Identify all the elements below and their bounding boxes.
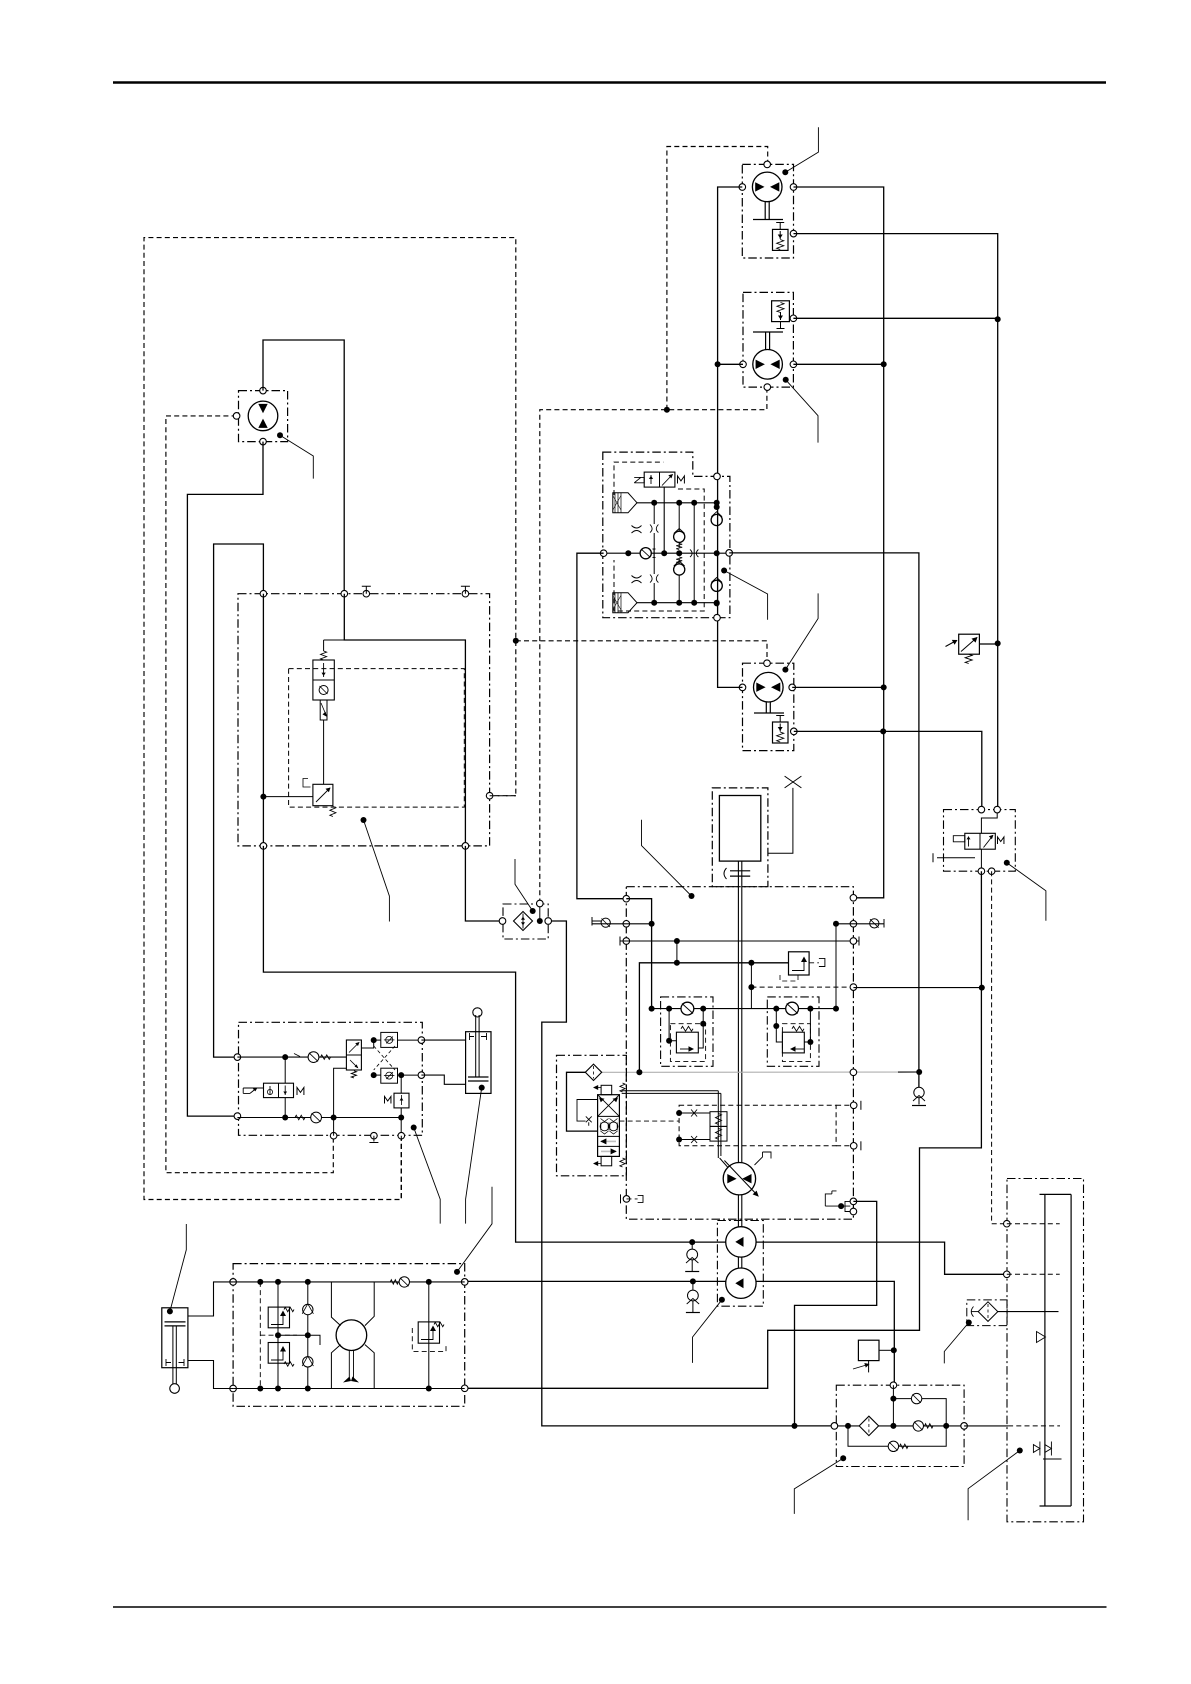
junction pb tie bbox=[275, 1332, 281, 1338]
junction pilot 2c bbox=[398, 1115, 404, 1121]
dashed filter into tank bbox=[1008, 1425, 1060, 1427]
engine body bbox=[719, 796, 760, 862]
dashed LS line bbox=[751, 986, 853, 988]
dashed enclosure box A bbox=[144, 238, 516, 1200]
port central D1 bbox=[850, 1102, 857, 1109]
prop valve sect lines bbox=[598, 1116, 620, 1146]
leader F1 bbox=[515, 859, 533, 911]
port filter left bbox=[831, 1423, 838, 1430]
gear pump P2 circle bbox=[726, 1227, 756, 1257]
wire filter main line bbox=[834, 1425, 964, 1427]
prop valve drain dashed bbox=[619, 1120, 679, 1122]
port M2 left bbox=[740, 361, 747, 368]
port pump box R2 bbox=[461, 1385, 468, 1392]
dashed enclosure box C bbox=[289, 669, 465, 808]
port middle bottom1 bbox=[260, 843, 267, 850]
junction central L1a bbox=[649, 921, 655, 927]
valve V6 spring bbox=[351, 1071, 356, 1078]
wire V4 top jog bbox=[981, 810, 997, 834]
port pilot B2 bbox=[371, 1132, 378, 1139]
filter F1 diamond bbox=[514, 912, 533, 931]
relief valve R8 arrow bbox=[271, 1312, 283, 1325]
port M1 right bbox=[790, 184, 797, 191]
wire pump return line bbox=[465, 1281, 895, 1385]
port M3 top bbox=[764, 660, 771, 667]
port F1 top bbox=[537, 900, 544, 907]
leader M4 bbox=[280, 435, 313, 478]
junction M2 relief bbox=[995, 316, 1001, 322]
junction dashed pilot bbox=[664, 407, 670, 413]
wire filter top drop bbox=[892, 1385, 894, 1426]
check valve FB1 bbox=[911, 1393, 921, 1403]
port middle top3 bbox=[363, 590, 370, 597]
tbar P1 bbox=[620, 1194, 622, 1203]
leader return filter bbox=[944, 1323, 969, 1364]
prop valve X mark bbox=[586, 1116, 592, 1125]
relief valve R5 body bbox=[959, 634, 980, 654]
port pilot R1 bbox=[418, 1037, 425, 1044]
filter F1 enclosure bbox=[503, 904, 548, 939]
check valve S1 bbox=[691, 1242, 693, 1249]
wire V1 left to center block bbox=[577, 553, 626, 899]
top rule bbox=[113, 81, 1106, 83]
motor M3 arrow left bbox=[756, 683, 765, 692]
port M1 left bbox=[739, 184, 746, 191]
relief valve R10 arrow bbox=[421, 1327, 433, 1340]
return filter F4 box bbox=[967, 1300, 1007, 1326]
valve V6 body bbox=[346, 1040, 361, 1070]
solenoid valve V2 check bbox=[319, 686, 328, 695]
relief valve R8 spring bbox=[284, 1307, 294, 1311]
port V1 top bbox=[714, 473, 721, 480]
port M3 relief bbox=[791, 728, 798, 735]
tank T pilot bbox=[369, 1136, 378, 1143]
leader dot 3 bbox=[454, 1269, 460, 1275]
port filter right bbox=[961, 1423, 968, 1430]
wire M1 left return bbox=[718, 187, 743, 687]
prop valve body bbox=[598, 1095, 620, 1157]
port V1 right bbox=[726, 550, 733, 557]
pump P4 diagonals bbox=[331, 1282, 374, 1389]
prop valve checks bbox=[600, 1122, 609, 1131]
tbar middle top4 bbox=[461, 586, 470, 594]
wire pilot line2 bbox=[237, 1117, 401, 1119]
check valve V1 center bbox=[640, 548, 651, 559]
sub-box right inner dashed bbox=[782, 1024, 810, 1062]
leader M1 bbox=[785, 127, 818, 172]
orifice V1 x654 bot bbox=[650, 575, 658, 583]
relief valve R1 body bbox=[676, 1032, 698, 1053]
wire M2 right bbox=[793, 363, 883, 365]
motor M2 relief valve bbox=[772, 301, 790, 322]
wire middle internal main bbox=[344, 594, 465, 846]
solenoid valve V5 lever bbox=[243, 1088, 263, 1093]
leader dot tank bbox=[1017, 1448, 1023, 1454]
wire pb tie bbox=[278, 1334, 308, 1336]
pilot box enclosure bbox=[239, 1022, 423, 1135]
port pilot L2 bbox=[234, 1113, 241, 1120]
check valve to tank bbox=[914, 1087, 924, 1097]
leader dot CYL2 bbox=[167, 1308, 173, 1314]
junction pb b1 bbox=[257, 1386, 263, 1392]
solenoid valve V2 spring bbox=[321, 651, 327, 660]
return filter F4 diamond bbox=[978, 1302, 998, 1322]
junction V1 center a bbox=[625, 550, 631, 556]
motor M1 arrow left bbox=[755, 182, 764, 191]
valve block V1 enclosure bbox=[603, 452, 730, 618]
junction M2 right bbox=[881, 361, 887, 367]
gear pump shaft mid bbox=[738, 1257, 741, 1268]
port central LS bbox=[850, 984, 857, 991]
port central D2 bbox=[850, 1143, 857, 1150]
port central grey bbox=[850, 1069, 857, 1076]
wire V1 right to drain column bbox=[729, 553, 919, 1087]
solenoid valve V1a diag bbox=[662, 475, 673, 486]
leader gear pumps bbox=[693, 1300, 722, 1363]
check pilot 1 bbox=[308, 1052, 319, 1063]
leader dot V4 bbox=[1004, 860, 1010, 866]
wire V2 top bbox=[323, 640, 325, 651]
junction central L1b bbox=[649, 1006, 655, 1012]
tank bottom bar bbox=[1040, 1505, 1072, 1507]
wire V4 Tport bbox=[937, 857, 975, 859]
wire R1 right bbox=[698, 1009, 703, 1048]
valve V4 body bbox=[965, 833, 996, 849]
shuttle spring V1 bbox=[676, 544, 682, 550]
solenoid valve V2 stem bbox=[320, 700, 327, 720]
pump P1 circle bbox=[723, 1163, 755, 1195]
relief valve R2 spring bbox=[792, 1026, 804, 1031]
port central L1 bbox=[623, 895, 630, 902]
dashed pilot from filter box up bbox=[540, 387, 767, 904]
motor M1 relief spring bbox=[777, 240, 784, 250]
prop valve bottom arrows bbox=[600, 1138, 606, 1144]
leader dot V1 bbox=[721, 568, 727, 574]
tank wall left bbox=[1044, 1194, 1046, 1506]
port pilot B3 bbox=[398, 1132, 405, 1139]
port V4 bot2 bbox=[988, 868, 995, 875]
wire pilotbox port A bbox=[214, 544, 264, 1057]
motor M4 circle bbox=[248, 401, 278, 431]
motor M1 relief arrow bbox=[779, 231, 781, 239]
heat exchanger body bbox=[858, 1340, 879, 1360]
junction R1 left bbox=[666, 1038, 672, 1044]
wire V1 center line bbox=[604, 552, 730, 554]
wire pb to pump bbox=[308, 1335, 320, 1345]
wire V3 out bbox=[263, 796, 313, 798]
wire V1 top gallery bbox=[637, 502, 718, 504]
port pump box R1 bbox=[461, 1279, 468, 1286]
leader dot M3 bbox=[782, 667, 788, 673]
junction C1 b bbox=[700, 1006, 706, 1012]
port central out1 bbox=[850, 1198, 857, 1205]
port central L2 bbox=[623, 921, 630, 928]
choke V1 left top bbox=[632, 526, 642, 529]
filter F2 diamond bbox=[585, 1064, 601, 1080]
port M3 left bbox=[739, 684, 746, 691]
label M V5 bbox=[297, 1088, 304, 1096]
leader engine bbox=[642, 820, 692, 896]
wire pilot filter line grey bbox=[602, 1071, 898, 1073]
wire M2 left bbox=[718, 363, 743, 365]
motor M1 arrow right bbox=[770, 182, 779, 191]
pump P1 arrow left bbox=[727, 1174, 736, 1183]
pump P4 drain bbox=[349, 1350, 353, 1379]
relief valve R9 body bbox=[268, 1343, 289, 1364]
leader dot filter box bbox=[840, 1455, 846, 1461]
port tank 2 bbox=[1004, 1271, 1011, 1278]
filter F1 arrows bbox=[522, 914, 524, 929]
dashed V4 return bbox=[992, 871, 1004, 1223]
motor M2 relief spring bbox=[777, 303, 784, 313]
port pump box L1 bbox=[230, 1279, 237, 1286]
engine vent flag bbox=[768, 788, 793, 853]
junction filter main a bbox=[845, 1423, 851, 1429]
port central out2 bbox=[850, 1208, 857, 1215]
wire pilot out1 bbox=[374, 1039, 381, 1041]
dashed middle right stub bbox=[490, 795, 516, 797]
wire filter bypass up bbox=[893, 1399, 946, 1426]
junction relief R5 bbox=[995, 640, 1001, 646]
wire M1 relief line bbox=[794, 234, 998, 810]
motor M1 relief valve bbox=[773, 229, 789, 250]
wire filter to tank port bbox=[964, 1425, 1008, 1427]
sub-box left inner dashed bbox=[670, 1024, 705, 1062]
wire central R2 stub bbox=[836, 923, 884, 925]
prop valve pilot loop bbox=[577, 1100, 598, 1122]
relief valve R7 body bbox=[394, 1093, 409, 1108]
valve block V1 inner dashed bbox=[614, 462, 704, 611]
label M V1a bbox=[678, 476, 685, 484]
junction V6 r1 bbox=[371, 1037, 377, 1043]
filter box enclosure bbox=[836, 1385, 964, 1466]
motor M2 relief pilot bbox=[777, 322, 785, 329]
label M R7 bbox=[385, 1097, 391, 1104]
motor M4 enclosure bbox=[239, 391, 288, 442]
relief valve R8 body bbox=[268, 1307, 289, 1328]
junction filter main c bbox=[943, 1423, 949, 1429]
port pilot B1 bbox=[330, 1132, 337, 1139]
check valve V1 right dn bbox=[711, 580, 722, 591]
check pilot 2 bbox=[295, 1115, 305, 1119]
prop valve bottom bars bbox=[601, 1140, 616, 1142]
wire check gallery bbox=[652, 1008, 836, 1010]
dashed drain from pilot box port bbox=[400, 1136, 402, 1200]
stroking dot 1 bbox=[676, 1110, 682, 1116]
dashed tank line1 bbox=[1007, 1223, 1060, 1225]
bracket R6 bbox=[819, 958, 825, 966]
relief valve R5 inlet arrow bbox=[946, 641, 956, 647]
junction R1 right bbox=[700, 1021, 706, 1027]
port central R2 bbox=[850, 921, 857, 928]
label M V4 bbox=[998, 837, 1004, 844]
motor M3 relief valve bbox=[773, 722, 789, 743]
junction V1 center d bbox=[714, 550, 720, 556]
leader pilot box bbox=[414, 1128, 441, 1224]
port V4 bot1 bbox=[978, 868, 985, 875]
leader dot gear pumps bbox=[719, 1297, 725, 1303]
heat exchanger arrow bbox=[853, 1365, 868, 1370]
check valve V1 right up bbox=[711, 514, 722, 525]
wire V6 bottom loop bbox=[334, 1068, 347, 1117]
tick pilot 1 bbox=[294, 1054, 300, 1057]
wire heat exch connect bbox=[879, 1349, 894, 1351]
wire LS external bbox=[853, 987, 981, 989]
relief valve R6 body bbox=[789, 952, 810, 975]
solenoid valve V1a arrow bbox=[650, 475, 652, 484]
bracket out ports bbox=[825, 1191, 836, 1206]
junction V1 r2 bbox=[714, 600, 720, 606]
motor M2 relief arrow bbox=[780, 312, 782, 320]
dashed P1 stub bbox=[627, 1198, 638, 1200]
wire V2 down bbox=[323, 720, 325, 784]
junction V1 center b bbox=[661, 550, 667, 556]
pump P1 arrow right bbox=[742, 1174, 751, 1183]
wire pump box top bbox=[233, 1281, 465, 1283]
solenoid valve V1a mid bbox=[659, 472, 661, 487]
junction heat exch bbox=[891, 1347, 897, 1353]
tbar middle top3 bbox=[362, 586, 371, 594]
gear pump P2 arrow bbox=[735, 1237, 743, 1247]
relief valve R9 spring bbox=[284, 1362, 294, 1366]
tbar D2 bbox=[860, 1141, 862, 1150]
reducing valve V3 body bbox=[313, 784, 333, 805]
junction box A pilot branch bbox=[513, 638, 519, 644]
cylinder CYL2 rod bbox=[173, 1326, 176, 1384]
pump box enclosure bbox=[233, 1264, 465, 1407]
leader CYL2 bbox=[170, 1224, 186, 1311]
port middle top4 bbox=[462, 590, 469, 597]
junction filter top bbox=[890, 1396, 896, 1402]
relief valve R7 glyph bbox=[401, 1095, 403, 1105]
wire pilot B1 internal bbox=[333, 1118, 335, 1136]
wire return into tank bbox=[998, 1311, 1059, 1313]
wire V1 col x679 bbox=[678, 503, 680, 603]
wire F1 top branch bbox=[539, 904, 541, 922]
junction pilot 2b bbox=[331, 1115, 337, 1121]
pump P4 circle bbox=[336, 1320, 367, 1351]
wire cooler feed bbox=[795, 1201, 877, 1426]
junction cooler on filter line bbox=[792, 1423, 798, 1429]
wire R7 column bbox=[400, 1075, 402, 1136]
engine coupling bbox=[730, 871, 750, 876]
junction C2 b bbox=[807, 1006, 813, 1012]
dashed stub box A to valve box bbox=[490, 795, 516, 797]
motor M1 circle bbox=[752, 172, 782, 202]
leader dot F1 bbox=[530, 908, 536, 914]
port middle bottom2 bbox=[462, 843, 469, 850]
tank enclosure bbox=[1007, 1179, 1084, 1522]
solenoid valve V2 body bbox=[313, 660, 334, 700]
stroking orifice 2 bbox=[679, 1139, 710, 1141]
gear pump P3 arrow bbox=[735, 1278, 743, 1288]
engine shaft bbox=[738, 861, 741, 1162]
leader stub 3 bbox=[457, 1187, 492, 1272]
check valve V1 col up bbox=[674, 531, 685, 542]
check valve C2 bbox=[786, 1002, 799, 1015]
wire middle left to pump line bbox=[263, 846, 1006, 1274]
relief valve R6 drain dashed bbox=[780, 975, 798, 981]
junction middle left bbox=[260, 794, 266, 800]
relief valve R2 arrow bbox=[792, 1048, 804, 1050]
engine enclosure bbox=[712, 788, 768, 887]
motor M4 arrow bottom bbox=[258, 419, 267, 428]
check valve C1 bbox=[681, 1002, 694, 1015]
wire V4 drain down bbox=[465, 871, 982, 1388]
wire M3 relief to valve box bbox=[794, 731, 982, 809]
pump P1 shaft lower bbox=[738, 1195, 741, 1227]
tbar gauge right bbox=[858, 937, 860, 946]
motor M3 relief pilot bbox=[776, 716, 784, 723]
check valve FB3 bbox=[888, 1441, 898, 1451]
junction F1 bbox=[537, 918, 543, 924]
tbar gauge left bbox=[619, 937, 621, 946]
suction strainer R bbox=[870, 919, 879, 928]
port M2 right bbox=[790, 361, 797, 368]
dashed pb relief encl bbox=[260, 1282, 297, 1389]
orifice V1 x654 top bbox=[650, 525, 658, 533]
leader filter box bbox=[794, 1458, 843, 1514]
port middle top1 bbox=[260, 590, 267, 597]
cartridge V1 upper bbox=[613, 493, 637, 513]
valve box V4 enclosure bbox=[944, 810, 1016, 872]
wire CYL2 top bbox=[188, 1282, 233, 1316]
middle box enclosure bbox=[238, 594, 490, 846]
sub-box left enclosure bbox=[661, 997, 713, 1066]
motor M3 relief arrow bbox=[779, 724, 781, 732]
leader tank bbox=[968, 1451, 1020, 1521]
wire pilot line1 bbox=[237, 1056, 346, 1058]
stroke line double bbox=[622, 1091, 721, 1094]
check sq CS1 bbox=[381, 1032, 398, 1047]
leader dot M2 bbox=[783, 377, 789, 383]
junction pilot 2a bbox=[282, 1115, 288, 1121]
check valve FB2 bbox=[913, 1421, 923, 1431]
motor M2 shaft bbox=[753, 332, 783, 350]
solenoid valve V2 arrow bbox=[323, 663, 325, 677]
prop valve solenoid bottom bbox=[601, 1156, 612, 1165]
check valve pb2 bbox=[303, 1357, 313, 1367]
wire M3 right bbox=[792, 686, 884, 688]
port V1 bottom bbox=[714, 614, 721, 621]
leader dot M4 bbox=[277, 432, 283, 438]
junction R2 right bbox=[807, 1039, 813, 1045]
junction M3 right joins bbox=[881, 684, 887, 690]
leader CYL1 bbox=[466, 1088, 482, 1224]
motor M2 enclosure bbox=[743, 292, 793, 387]
port V4 top2 bbox=[994, 806, 1001, 813]
wire F2 feed bbox=[567, 1072, 598, 1131]
leader dot M1 bbox=[782, 169, 788, 175]
heat exchanger tail bbox=[868, 1361, 870, 1373]
junction grey right bbox=[916, 1069, 922, 1075]
wire filter right path bbox=[542, 921, 835, 1426]
cylinder CYL2 eye bbox=[170, 1384, 180, 1394]
junction R2 left bbox=[773, 1023, 779, 1029]
wire V1 branch x654 bbox=[653, 503, 655, 603]
junction gallery a bbox=[674, 960, 680, 966]
port V1 left bbox=[600, 550, 607, 557]
leader dot CYL1 bbox=[479, 1085, 485, 1091]
leader M2 bbox=[786, 380, 818, 443]
reducing valve V3 hook bbox=[303, 779, 311, 788]
motor M1 relief pilot bbox=[776, 223, 784, 230]
relief valve R6 arrow bbox=[792, 958, 804, 971]
relief valve R1 spring bbox=[681, 1026, 693, 1031]
wire middle to filter bbox=[465, 846, 502, 921]
cylinder CYL2 piston bbox=[165, 1322, 186, 1326]
motor M2 arrow right bbox=[770, 360, 779, 369]
